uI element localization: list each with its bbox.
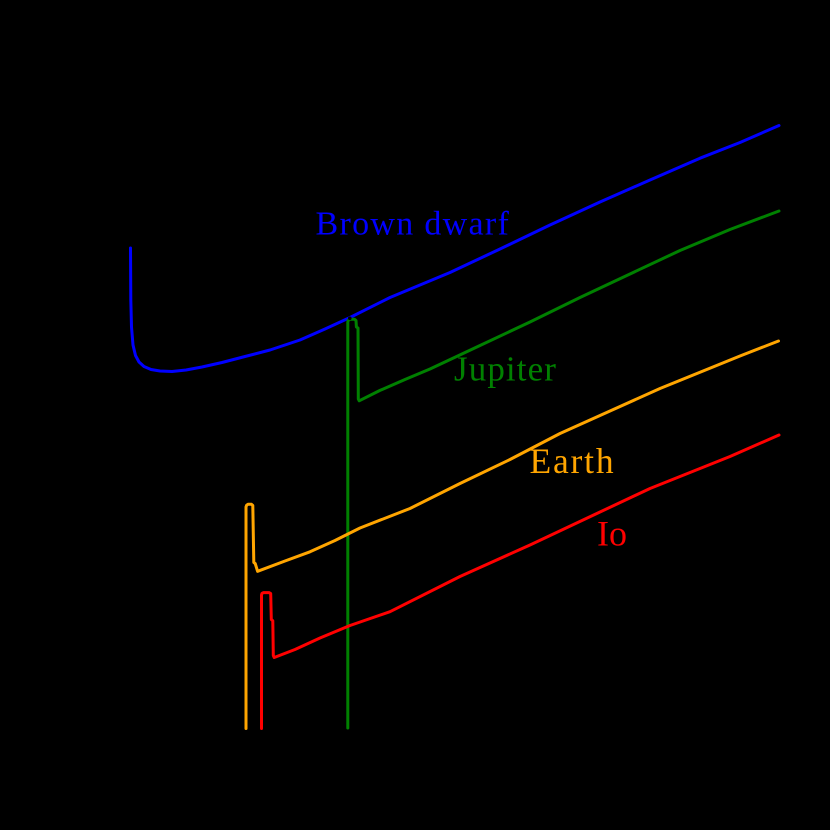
svg-text:Jupiter: Jupiter xyxy=(454,350,557,389)
svg-text:Earth: Earth xyxy=(530,441,616,481)
curve Brown dwarf (blue) xyxy=(131,126,780,372)
curve Earth (orange) xyxy=(246,341,779,729)
curve Jupiter (green) xyxy=(348,211,779,728)
curve Io (red) xyxy=(262,435,780,729)
svg-text:Io: Io xyxy=(597,514,627,554)
node blue-green intersection dot xyxy=(348,317,352,321)
svg-text:Brown dwarf: Brown dwarf xyxy=(316,206,511,243)
